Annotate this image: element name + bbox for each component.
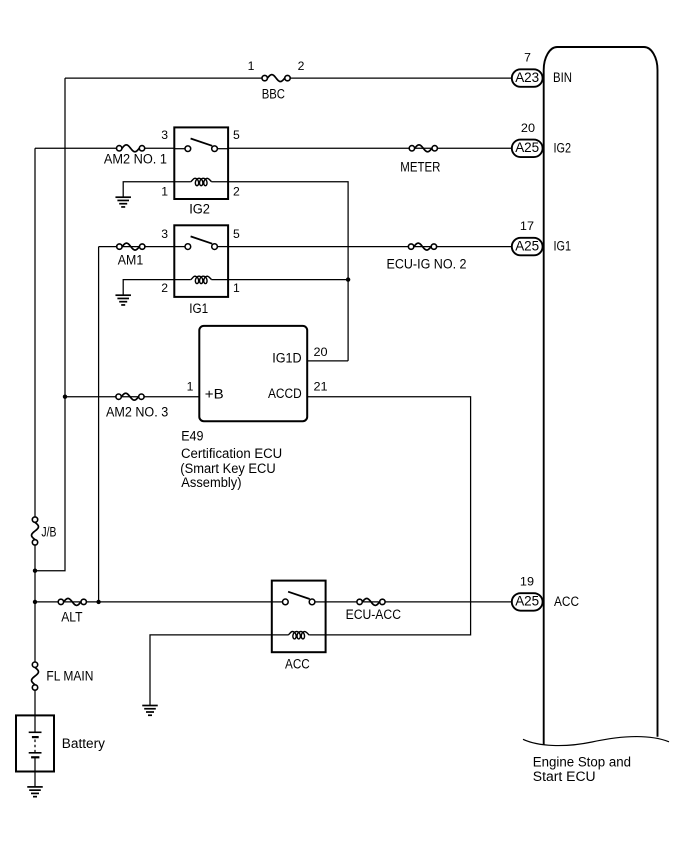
node A25 pin 17 (IG1)	[512, 219, 571, 255]
Engine Stop and Start ECU outline	[523, 47, 669, 784]
wire ACC coil left to ground	[150, 635, 272, 706]
svg-text:17: 17	[520, 219, 534, 233]
svg-text:IG2: IG2	[554, 140, 572, 155]
ground IG1 coil	[115, 295, 131, 305]
wire ACC to ECU-ACC to A25	[325, 601, 512, 603]
svg-text:BBC: BBC	[262, 87, 286, 102]
battery	[16, 715, 105, 787]
svg-text:AM2 NO. 3: AM2 NO. 3	[106, 405, 168, 420]
svg-text:Battery: Battery	[62, 736, 105, 751]
wire IG1 coil left to ground	[123, 280, 174, 296]
svg-text:ACC: ACC	[554, 594, 579, 609]
wire AM1 row	[99, 246, 175, 248]
svg-text:BIN: BIN	[553, 70, 572, 85]
svg-text:ACCD: ACCD	[268, 386, 302, 401]
fuse J/B (vertical)	[32, 517, 57, 545]
svg-text:FL MAIN: FL MAIN	[46, 669, 93, 684]
svg-text:3: 3	[161, 227, 168, 241]
svg-text:5: 5	[233, 227, 240, 241]
svg-text:ALT: ALT	[61, 610, 82, 625]
svg-text:A25: A25	[515, 594, 539, 609]
node A25 pin 20 (IG2)	[512, 121, 571, 157]
svg-text:19: 19	[520, 574, 534, 588]
wire +B row	[65, 396, 199, 398]
svg-text:1: 1	[187, 379, 194, 393]
relay ACC	[272, 581, 326, 672]
svg-text:20: 20	[521, 121, 535, 135]
svg-text:1: 1	[248, 59, 255, 73]
svg-text:J/B: J/B	[41, 525, 56, 540]
svg-text:1: 1	[233, 281, 240, 295]
wire rail2 vertical x=65	[35, 78, 65, 571]
svg-text:(Smart Key ECU: (Smart Key ECU	[180, 461, 275, 476]
svg-text:IG1: IG1	[554, 239, 572, 254]
svg-text:2: 2	[298, 59, 305, 73]
ground battery	[27, 787, 43, 797]
svg-text:20: 20	[314, 345, 328, 359]
svg-text:21: 21	[314, 379, 328, 393]
relay IG2	[161, 127, 240, 216]
junction rail2 joins rail1	[33, 569, 37, 573]
E49 Certification ECU box	[180, 326, 328, 490]
fuse ALT	[58, 598, 86, 624]
wire rail1 vertical x=35	[34, 148, 36, 715]
svg-text:2: 2	[233, 184, 240, 198]
fuse FL MAIN (vertical)	[32, 662, 94, 690]
svg-text:+B: +B	[205, 387, 224, 402]
svg-text:Certification ECU: Certification ECU	[181, 446, 282, 461]
wire IG1 coil right to rail junction	[228, 279, 348, 281]
junction IG1 coil rail	[346, 277, 350, 281]
svg-text:ECU-ACC: ECU-ACC	[346, 607, 402, 622]
svg-text:Start ECU: Start ECU	[533, 769, 596, 784]
fuse AM1	[117, 243, 145, 268]
wire IG2 coil right to rail	[228, 182, 348, 361]
fuse AM2 NO.3	[106, 393, 168, 419]
svg-text:A25: A25	[515, 238, 539, 253]
svg-text:IG2: IG2	[189, 202, 210, 217]
svg-text:ECU-IG NO. 2: ECU-IG NO. 2	[387, 257, 467, 272]
wire BBC row	[65, 77, 512, 79]
fuse METER	[400, 145, 440, 175]
ground IG2 coil	[115, 197, 131, 207]
junction ALT rail1	[33, 600, 37, 604]
svg-text:AM2 NO. 1: AM2 NO. 1	[104, 152, 167, 167]
fuse AM2 NO.1	[104, 145, 167, 167]
ground ACC coil	[142, 706, 158, 716]
wire ALT/ACC row	[35, 601, 272, 603]
svg-text:2: 2	[161, 281, 168, 295]
fuse BBC	[248, 59, 305, 102]
wire IG2 to METER to A25	[228, 147, 512, 149]
node A23 pin 7	[512, 51, 572, 87]
svg-text:IG1: IG1	[189, 301, 208, 316]
svg-text:AM1: AM1	[118, 253, 143, 268]
svg-text:1: 1	[161, 184, 168, 198]
svg-text:A23: A23	[515, 70, 539, 85]
svg-text:3: 3	[161, 128, 168, 142]
fuse ECU-ACC	[346, 598, 402, 622]
wire IG1D to rail	[307, 360, 348, 362]
svg-text:Assembly): Assembly)	[181, 475, 241, 490]
wire rail3 vertical x=98.6	[98, 247, 100, 602]
svg-text:5: 5	[233, 128, 240, 142]
relay IG1	[161, 225, 240, 316]
wire AM2 NO.1 row	[35, 147, 174, 149]
node A25 pin 19 (ACC)	[512, 574, 579, 610]
wire IG1 to ECU-IG to A25	[228, 246, 512, 248]
junction rail3 ALT row	[96, 600, 100, 604]
svg-text:METER: METER	[400, 160, 440, 175]
wire ACCD to rail	[307, 397, 470, 635]
fuse ECU-IG NO.2	[387, 243, 467, 271]
svg-text:IG1D: IG1D	[272, 350, 302, 365]
svg-text:Engine Stop and: Engine Stop and	[533, 755, 631, 770]
svg-text:7: 7	[524, 51, 531, 65]
svg-text:A25: A25	[515, 140, 539, 155]
svg-text:E49: E49	[181, 428, 203, 443]
svg-text:ACC: ACC	[285, 657, 310, 672]
wire IG2 coil left to ground	[123, 182, 174, 198]
junction +B rail2	[63, 395, 67, 399]
